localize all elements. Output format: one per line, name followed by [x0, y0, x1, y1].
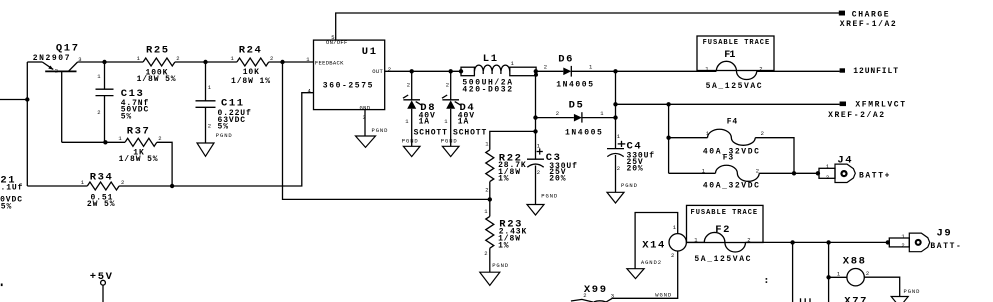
wire: D6 cathode to F1: [571, 70, 716, 72]
wire: R22 tap to divider: [490, 131, 536, 149]
wire: 12V vertical to C4: [615, 71, 617, 148]
svg-text:5A_125VAC: 5A_125VAC: [706, 82, 764, 91]
op-amp/regulator U1 360-2575: [306, 34, 391, 121]
svg-text:AGND2: AGND2: [641, 259, 662, 266]
svg-text:FUSABLE TRACE: FUSABLE TRACE: [703, 39, 771, 47]
svg-text:X77: X77: [844, 296, 868, 302]
junction: C13 top: [102, 60, 106, 64]
svg-text:F4: F4: [727, 118, 738, 127]
svg-text:1%: 1%: [498, 242, 509, 251]
junction: 12V node: [613, 69, 617, 73]
svg-text:PGND: PGND: [372, 127, 389, 134]
svg-text:1/8W 1%: 1/8W 1%: [231, 77, 271, 86]
fuse F4 40A-32VDC: [669, 118, 764, 157]
+5V power stub: [90, 271, 114, 302]
capacitor C11 0.22Uf: [196, 62, 252, 143]
junction: D5 anode tap: [533, 115, 537, 119]
junction: R37 on R34 net: [170, 184, 174, 188]
wire: R25 to R24: [175, 61, 237, 63]
svg-text:1: 1: [137, 55, 141, 62]
junction: C13 bottom on base net: [103, 140, 107, 144]
wire: Q17 collector to R25: [78, 61, 144, 63]
svg-text:1: 1: [617, 133, 621, 140]
svg-text:2W 5%: 2W 5%: [87, 200, 116, 209]
svg-text:2: 2: [756, 167, 759, 174]
svg-text:F1: F1: [724, 50, 735, 61]
svg-text:2: 2: [866, 270, 869, 277]
svg-text:1N4005: 1N4005: [565, 129, 603, 138]
svg-text:BATT-: BATT-: [930, 242, 962, 251]
terminal 12UNFILT: [840, 67, 899, 76]
svg-text:CHARGE: CHARGE: [852, 11, 890, 20]
svg-text:2: 2: [176, 55, 179, 62]
junction: D4 top: [449, 69, 453, 73]
stray marks: clipped text at page bottom: [801, 298, 811, 302]
wire: R37 right down to R34 net: [157, 142, 172, 186]
svg-text:10K: 10K: [243, 68, 260, 77]
svg-text:420-D032: 420-D032: [462, 86, 513, 95]
svg-text:X14: X14: [642, 239, 666, 251]
svg-text:PGND: PGND: [402, 138, 419, 145]
transistor Q2N2907 Q17: [27, 42, 81, 142]
svg-text:1N4005: 1N4005: [556, 80, 594, 89]
capacitor C13 4.7Nf: [96, 62, 150, 142]
capacitor C3 330Uf: [527, 143, 578, 205]
fuse F1 5A-125VAC fusable trace: [697, 36, 774, 91]
svg-text:PGND: PGND: [541, 193, 558, 200]
svg-text:2: 2: [446, 82, 449, 89]
junction: X88 tap: [826, 275, 830, 279]
wire: X14 pin 1 loop to AGND2: [635, 213, 678, 269]
junction: battery minus branch 1: [790, 240, 794, 244]
junction: C11 top: [203, 60, 207, 64]
junction: battery minus branch 2: [826, 240, 830, 244]
svg-text:1: 1: [826, 163, 830, 170]
svg-text:PGND: PGND: [904, 288, 921, 295]
svg-text:1: 1: [81, 179, 85, 186]
svg-text:PGND: PGND: [492, 262, 509, 269]
svg-text:D6: D6: [558, 53, 574, 65]
resistor R37 1K: [118, 126, 161, 165]
svg-text:1/8W 5%: 1/8W 5%: [119, 155, 159, 164]
svg-text:1: 1: [673, 224, 677, 231]
svg-text:2: 2: [544, 64, 547, 71]
svg-text:5%: 5%: [121, 112, 132, 121]
wire: feedback sense vertical and run to R22/R23 divider: [283, 62, 490, 199]
svg-text:XREF-1/A2: XREF-1/A2: [840, 20, 898, 29]
resistor R24 10K: [231, 45, 274, 86]
svg-text:1: 1: [405, 118, 409, 125]
wire: F2 to J9: [746, 241, 888, 243]
svg-text:1%: 1%: [498, 175, 509, 184]
connector X99 (clipped at page bottom): [571, 284, 614, 302]
ground PGND under C11: [197, 132, 233, 156]
svg-text:5A_125VAC: 5A_125VAC: [694, 255, 752, 264]
wire: X14 pin 2 down to WGND run: [612, 251, 677, 298]
ground PGND under C4: [607, 182, 638, 203]
junction: F4/F3 branch from XFMRLVCT: [666, 102, 670, 106]
svg-text:1: 1: [444, 118, 448, 125]
resistor R22 28.7K: [485, 141, 526, 200]
wire: R34 to U1 pin 4 riser: [119, 93, 313, 186]
svg-text:FUSABLE TRACE: FUSABLE TRACE: [691, 209, 759, 217]
wire: branch 1 vertical to page bottom: [792, 242, 794, 302]
wire: R34 net: [27, 185, 87, 187]
svg-text:XREF-2/A2: XREF-2/A2: [828, 111, 886, 120]
resistor R34 0.51: [81, 172, 125, 209]
diode D8 40V 1A SCHOTT: [403, 71, 448, 146]
svg-text:360-2575: 360-2575: [323, 82, 374, 91]
wire: F3 to J4: [759, 172, 819, 174]
svg-text:1: 1: [208, 84, 212, 91]
wire: Q17 base net to R37: [62, 141, 125, 143]
junction: divider midpoint: [488, 197, 492, 201]
svg-text:FEEDBACK: FEEDBACK: [315, 60, 344, 67]
svg-text:1A: 1A: [458, 118, 469, 127]
connector J9 BATT-: [889, 227, 962, 251]
svg-text:U1: U1: [362, 46, 378, 58]
svg-text:2: 2: [208, 122, 211, 129]
wire: U1 pin 3 to ground: [364, 110, 366, 136]
svg-text:2: 2: [158, 135, 161, 142]
wire: F4 right to F3 output: [755, 138, 794, 174]
svg-text:WGND: WGND: [655, 291, 672, 298]
svg-text:20%: 20%: [549, 175, 566, 184]
svg-text:ON/OFF: ON/OFF: [326, 39, 348, 46]
svg-text:2: 2: [826, 174, 829, 181]
junction: F4/F3 join: [792, 171, 796, 175]
diode D6 1N4005: [536, 53, 595, 89]
junction: F4 left: [666, 136, 670, 140]
svg-text:2: 2: [617, 165, 620, 172]
svg-text:12UNFILT: 12UNFILT: [853, 67, 899, 76]
wire: XFMRLVCT net: [616, 103, 840, 105]
svg-text:1: 1: [97, 73, 101, 80]
svg-text:1: 1: [837, 271, 841, 278]
svg-text:R24: R24: [239, 45, 263, 57]
svg-text:2: 2: [55, 68, 58, 75]
ground PGND under R23: [480, 262, 509, 285]
svg-text:SCHOTT: SCHOTT: [414, 128, 448, 137]
wire: input net from left edge: [0, 99, 27, 101]
svg-text:2N2907: 2N2907: [33, 54, 71, 63]
svg-text:2: 2: [583, 292, 586, 299]
svg-text:R34: R34: [90, 172, 114, 184]
svg-text:40A_32VDC: 40A_32VDC: [703, 182, 761, 191]
svg-text:1: 1: [600, 110, 604, 117]
svg-text:2: 2: [484, 250, 487, 257]
stray mark: clipped glyph at left edge: [1, 284, 3, 287]
svg-text:1: 1: [231, 55, 235, 62]
svg-text:1: 1: [901, 233, 905, 240]
terminal CHARGE: [839, 11, 898, 29]
svg-text:5%: 5%: [218, 122, 229, 131]
junction: XFMRLVCT tap: [613, 102, 617, 106]
svg-text:5: 5: [331, 34, 334, 41]
inductor L1 500UH/2A: [461, 53, 536, 95]
wire: F1 to 12UNFILT terminal: [757, 70, 840, 72]
junction: L1 right lower: [534, 73, 538, 77]
svg-text:PGND: PGND: [216, 132, 233, 139]
connector X14: [642, 224, 686, 259]
resistor R23 2.43K: [484, 199, 527, 272]
svg-text:1A: 1A: [419, 118, 430, 127]
svg-text:PGND: PGND: [621, 182, 638, 189]
capacitor C21 (off-page, value text only): [0, 174, 23, 211]
svg-text:20%: 20%: [627, 164, 644, 173]
svg-text:X88: X88: [843, 256, 867, 268]
terminal XFMRLVCT: [828, 100, 907, 120]
wire: R24 to U1 pin 1: [269, 61, 314, 63]
junction: L1 right / D6 anode: [534, 69, 538, 73]
svg-text:2: 2: [556, 110, 559, 117]
svg-text:2: 2: [671, 252, 674, 259]
ground PGND under D4: [441, 138, 459, 157]
svg-text:2: 2: [761, 130, 764, 137]
ground PGND under X88: [891, 288, 920, 302]
junction: input net / emitter branch: [25, 97, 29, 101]
svg-text:C11: C11: [221, 97, 245, 109]
junction: R22 tap: [533, 129, 537, 133]
wire: U1 pin 2 OUT to L1: [385, 70, 461, 72]
svg-text:1: 1: [118, 135, 122, 142]
svg-text:1/8W 5%: 1/8W 5%: [137, 75, 177, 84]
svg-text:X99: X99: [584, 284, 608, 296]
junction: D5 cathode: [613, 115, 617, 119]
svg-text:J4: J4: [837, 154, 853, 166]
junction: J4 input: [816, 171, 820, 175]
wire: X88 pin 2 to ground: [864, 277, 899, 296]
resistor R25 100K: [137, 45, 180, 84]
junction: L1 left: [459, 69, 463, 73]
svg-text:Q17: Q17: [56, 42, 80, 54]
connector X88: [829, 256, 870, 286]
junction: D8 top: [410, 69, 414, 73]
svg-text:2: 2: [537, 169, 540, 176]
ground PGND under C3: [527, 193, 558, 216]
svg-text:1: 1: [484, 208, 488, 215]
capacitor C4 330Uf: [607, 133, 655, 192]
connector J4 BATT+: [819, 154, 891, 182]
svg-text:1: 1: [589, 64, 593, 71]
svg-text:D5: D5: [569, 100, 585, 112]
wire: vertical emitter/R34 branch: [26, 62, 28, 186]
wire: F4/F3 left vertical: [668, 104, 670, 173]
svg-text:PGND: PGND: [441, 138, 458, 145]
svg-text:SCHOTT: SCHOTT: [453, 128, 487, 137]
svg-text:1: 1: [485, 141, 489, 148]
svg-text:2: 2: [485, 187, 488, 194]
wire: branch 2 vertical to X77: [828, 242, 830, 302]
svg-text:2: 2: [901, 242, 904, 249]
wire: C3 node vertical: [535, 71, 537, 159]
svg-text:2: 2: [270, 55, 273, 62]
svg-text:BATT+: BATT+: [859, 171, 891, 180]
svg-text:F3: F3: [723, 154, 734, 163]
diode D5 1N4005: [536, 100, 616, 138]
svg-text:XFMRLVCT: XFMRLVCT: [855, 100, 906, 109]
svg-text:2: 2: [121, 179, 124, 186]
fuse F3 40A-32VDC: [669, 154, 761, 191]
svg-text:.1Uf: .1Uf: [1, 184, 24, 193]
svg-text:2: 2: [97, 109, 100, 116]
junction: J9 input: [886, 240, 890, 244]
diode D4 40V 1A SCHOTT: [442, 71, 487, 146]
svg-text:F2: F2: [715, 224, 731, 236]
ground PGND under D8: [402, 138, 420, 157]
svg-text:R25: R25: [146, 45, 170, 57]
ground AGND2: [627, 259, 662, 279]
stray mark: colon left of battery branch: [766, 278, 768, 283]
svg-text:2: 2: [407, 82, 410, 89]
svg-text:L1: L1: [483, 53, 499, 65]
fuse F2 5A-125VAC fusable trace: [686, 205, 763, 264]
svg-text:OUT: OUT: [372, 68, 383, 75]
svg-text:R37: R37: [127, 126, 151, 138]
svg-text:1: 1: [511, 60, 515, 67]
svg-text:J9: J9: [937, 227, 953, 239]
svg-text:5%: 5%: [1, 202, 12, 211]
ground PGND under U1: [356, 127, 389, 147]
junction: feedback sense tap: [280, 60, 284, 64]
wire: U1 pin 5 to CHARGE net: [336, 13, 839, 40]
